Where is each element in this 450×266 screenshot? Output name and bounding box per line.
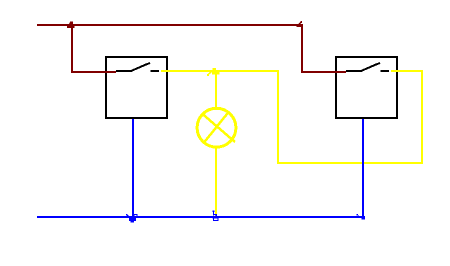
wire lamp top lead	[215, 70, 217, 109]
junction marker N corner at S2 drop	[356, 214, 365, 220]
junction N at lamp lead	[212, 210, 214, 212]
wire N neutral bottom horizontal (blue)	[37, 216, 365, 218]
wire lamp bottom lead	[215, 146, 217, 217]
wire L drop to S1	[71, 24, 73, 73]
lamp E1 cross stroke 2	[204, 112, 229, 143]
junction L tap at S1 drop	[67, 22, 75, 28]
wire L into S2 input	[301, 71, 346, 73]
junction N at S1 drop	[126, 214, 136, 223]
wire L phase top horizontal (dark red)	[37, 24, 302, 26]
switch S2 lever	[346, 63, 380, 71]
switch S1 box	[106, 57, 167, 118]
switch S1 lever	[116, 63, 150, 71]
junction lamp tap on traveler	[207, 68, 219, 76]
wire N drop from S2	[362, 119, 364, 218]
switch S2 contact dash	[381, 70, 390, 72]
lamp E1 circle	[197, 108, 236, 147]
wire traveler from S1 output (yellow)	[161, 70, 279, 72]
switch S2 box	[336, 57, 397, 118]
wire L drop to S2	[301, 24, 303, 73]
lamp E1 cross stroke 1	[203, 114, 236, 142]
junction marker at L corner to S2	[297, 21, 303, 27]
switch S1 contact dash	[151, 70, 160, 72]
wire traveler up to S2	[421, 70, 423, 164]
wire from S2 output	[391, 70, 423, 72]
wire L into S1 input	[71, 71, 116, 73]
wire traveler bottom horizontal	[277, 162, 423, 164]
wire traveler down right of lamp	[277, 70, 279, 164]
wire N drop from S1	[132, 119, 134, 218]
